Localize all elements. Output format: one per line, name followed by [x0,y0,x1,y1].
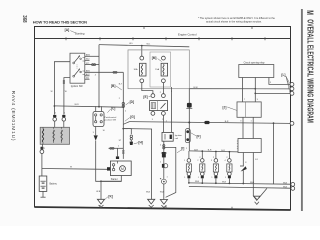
wire switch left AM1 feed [54,62,71,115]
engine control top box [239,65,274,78]
injector I1 [186,151,191,183]
svg-text:[A]: [A] [65,28,70,32]
wire fuse drop [141,46,143,57]
note (example only) line 2 [206,19,262,23]
svg-text:W-B: W-B [160,192,165,194]
callout L [281,73,290,93]
label Starter [111,178,118,181]
battery [39,176,47,191]
callout F [191,133,201,139]
wire ST2 stub [85,59,90,61]
note (example only) line 1 [198,16,276,20]
callout H [134,141,143,145]
PNP switch label [104,116,117,122]
side label RAV4 (EM01M1U) (rotated) [10,91,16,142]
svg-text:Starting: Starting [75,32,85,36]
svg-text:[I]: [I] [181,147,184,151]
wire label B-R on y123 [225,121,229,123]
ground G4 [254,196,260,204]
battery top circle [40,150,44,154]
ECU box J [237,102,261,117]
svg-text:[G]: [G] [130,115,135,119]
battery feed bus [42,168,107,171]
svg-text:M: M [305,10,316,15]
svg-text:ST1: ST1 [86,63,89,65]
svg-text:4: 4 [225,160,226,162]
svg-text:Park/neutral: Park/neutral [104,116,116,119]
callout E [143,95,150,99]
wire relay out down [163,115,165,132]
svg-text:ACC: ACC [86,73,91,76]
svg-text:Battery: Battery [50,183,58,186]
wire AM1 run to right [85,71,124,73]
wire long B-W horizontal [189,88,290,90]
sidebar title M (rotated) [305,10,316,15]
svg-text:W-B: W-B [195,181,200,183]
label W-B right mid ground [160,192,165,194]
node circles right top [290,83,294,96]
injector I2 [200,151,205,183]
wire IG main vertical [122,72,124,159]
relay pin labels [152,119,164,121]
bus wire label [75,104,80,106]
svg-text:RAV4 (EM01M1U): RAV4 (EM01M1U) [10,91,16,142]
wire left vertical to bus [98,45,100,107]
node circles right bottom [291,183,295,191]
injector I3 [213,152,218,184]
svg-text:AM1: AM1 [86,70,90,73]
svg-text:W-B: W-B [283,183,288,185]
wire box pin3 to circle 1 [269,78,290,85]
label Battery [50,183,58,186]
outer example box frame [35,27,291,211]
wire branch to ground line [123,129,151,200]
injector bus wire [189,150,238,152]
svg-text:W-B: W-B [283,187,288,189]
svg-text:IG1: IG1 [86,78,89,80]
capacitor blob on JB drop [186,89,192,151]
fusible link block (shaded) [40,127,69,144]
wire ST1 with connector [85,64,99,66]
switch terminal labels [86,54,91,80]
wire battery vertical [41,154,43,177]
starter top terminal cap [116,156,119,159]
ignition switch SW1 [70,53,85,83]
ground bus 2 [189,187,290,189]
sidebar divider line [301,9,303,211]
callout A [65,28,76,33]
svg-text:W: W [65,91,67,93]
section title [33,19,87,24]
svg-text:Ignition: Ignition [175,134,183,137]
svg-text:Engine Control: Engine Control [178,33,197,37]
injector I4 [227,152,232,184]
svg-text:W: W [70,167,72,169]
svg-text:[K]: [K] [108,195,112,199]
svg-text:368: 368 [21,15,28,23]
labels W-B at right circles [283,183,288,189]
PNP arrow symbol [94,127,98,141]
svg-text:3: 3 [152,119,153,121]
ground G3 [160,200,167,208]
wire coil chain down [163,141,165,199]
sidebar title text (rotated) [305,19,313,123]
node circle right y123 [290,122,294,126]
bus2 labels W-B [195,181,255,184]
label W-B mid ground [146,192,151,194]
wire FL to battery circle [41,144,44,149]
svg-text:W-R: W-R [75,104,80,106]
extra tiny wire labels [44,75,272,180]
svg-text:B-R: B-R [221,150,225,152]
battery ground stub [41,191,46,197]
label Engine Control [178,33,197,37]
wire IG1 stub [85,78,90,80]
page number 368 (rotated) [21,15,28,23]
svg-text:[D]: [D] [130,100,134,104]
component F (noise filter) [185,129,190,143]
label Ignition SW [71,85,84,88]
svg-text:OVERALL ELECTRICAL WIRING DIAG: OVERALL ELECTRICAL WIRING DIAGRAM [305,19,313,123]
resistor blob component [161,152,167,157]
starter box [110,161,131,176]
header ticks on top border [144,26,252,29]
transistor Q1 [240,153,247,185]
wire main bus horizontal [54,106,124,108]
wire switch left ACC feed with connector [63,78,70,115]
svg-text:HOW TO READ THIS SECTION: HOW TO READ THIS SECTION [33,19,87,24]
wire PNP down to ground bus [96,141,122,183]
ignition coil label [175,134,183,140]
branch wire right of coil chain [164,147,176,197]
svg-text:Circuit opening relay: Circuit opening relay [244,61,266,64]
wire label W-L left [129,43,134,45]
callout M [152,56,162,62]
wire starter ground [101,176,121,182]
callout D [126,100,134,105]
svg-text:position SW: position SW [104,119,117,122]
callout K [104,195,113,201]
wire top feed W-L [99,45,189,47]
header separator line [35,38,291,40]
svg-text:coil: coil [175,138,179,140]
wire AM2 stub [85,55,99,57]
wire box pin2 down [254,78,256,102]
svg-text:3: 3 [211,160,212,162]
wire Jbox to mid box pin b [252,117,254,138]
svg-text:1: 1 [184,160,185,162]
svg-text:[J]: [J] [223,105,227,109]
ground bus 1 [188,182,290,184]
wire label B-W [194,87,198,89]
junction block box [128,50,189,89]
fuse F1 label [134,68,138,71]
battery top cap [41,147,44,150]
wire right return vertical [273,123,275,184]
distributor sensor [162,164,168,168]
starter left terminal cap [107,167,110,170]
callout B [111,84,122,90]
label W-B left ground [96,191,101,193]
wire branch to H connector [123,129,133,145]
svg-text:M: M [121,167,124,171]
svg-text:2: 2 [197,160,198,162]
wire y123 horizontal [123,121,290,124]
wire fuse2 to relay [162,83,164,94]
inner block box [150,52,171,87]
callout C [107,106,115,112]
svg-text:AM2: AM2 [86,54,90,57]
ground G2 [148,199,155,207]
svg-text:W: W [51,91,53,93]
park/neutral position switch [93,106,104,126]
svg-text:B-R: B-R [225,121,229,123]
svg-text:actual circuit shown in the wi: actual circuit shown in the wiring diagr… [206,19,262,23]
wire ground drop left [100,181,102,199]
svg-text:Starter: Starter [111,178,118,181]
fusible link terminals top [53,115,66,127]
spark plug circle [160,178,166,184]
svg-text:15A: 15A [155,68,159,71]
svg-text:[M]: [M] [152,56,157,60]
relay ST [150,94,168,116]
svg-text:[L]: [L] [281,73,285,77]
svg-text:W-B: W-B [250,182,255,184]
svg-text:1: 1 [162,119,163,121]
wire to circle 3 [254,93,290,95]
wire starter branch connector [109,147,125,156]
inline connector on y123 [204,121,209,124]
ECM mid box [237,139,261,153]
svg-text:30A: 30A [134,68,138,71]
svg-text:[E]: [E] [143,95,147,99]
connector on IG vertical [122,102,124,107]
wire box pin1 down [242,78,244,102]
svg-text:[B]: [B] [111,84,115,88]
fuse F2 label [155,68,159,71]
svg-text:[H]: [H] [138,141,142,145]
wire ECM ground drop [253,153,267,200]
svg-text:B-R: B-R [194,149,198,151]
callout I (injector row) [177,147,184,153]
top box label [244,61,266,64]
header ticks on separator [66,37,265,40]
wire fuse1 to relay [142,83,153,94]
bus labels B-R [194,149,225,152]
ignition coil box [162,132,173,141]
fuse F1 [140,56,147,83]
wire ACC stub [85,75,90,77]
callout J [223,105,237,110]
ground G1 [97,199,104,207]
wire Jbox to mid box pin a [242,117,244,138]
svg-text:B-R: B-R [208,150,212,152]
callout G [125,115,135,121]
injector pin labels [184,160,226,162]
ticks on bottom border [100,205,232,210]
svg-text:ST2: ST2 [86,59,89,61]
svg-text:Ignition SW: Ignition SW [71,85,84,88]
svg-text:W-B: W-B [96,191,101,193]
wire JB inner drop [171,87,173,132]
fuse F2 [161,56,168,83]
label Starting [75,32,85,36]
svg-text:[C]: [C] [111,106,115,110]
svg-text:[F]: [F] [197,134,201,138]
svg-text:* The system shown here is an: * The system shown here is an EXAMPLE ON… [198,16,276,20]
svg-text:W-B: W-B [146,192,151,194]
svg-text:B-W: B-W [194,87,198,89]
wire label W-L right [147,44,152,46]
svg-text:W-B: W-B [222,182,227,184]
